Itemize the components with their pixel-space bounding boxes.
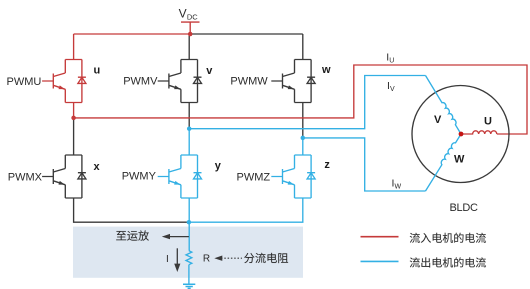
node VDC junction bbox=[188, 32, 193, 37]
wire: PWMW emitter to node z bbox=[302, 103, 304, 138]
svg-text:y: y bbox=[215, 160, 222, 172]
svg-text:I: I bbox=[166, 254, 169, 265]
svg-text:PWMZ: PWMZ bbox=[237, 171, 271, 183]
wire: rail to PWMU collector bbox=[73, 34, 75, 60]
svg-text:PWMV: PWMV bbox=[123, 76, 158, 88]
arrow to op-amp bbox=[162, 234, 189, 239]
svg-text:PWMU: PWMU bbox=[7, 76, 42, 88]
transistor PWMU bbox=[42, 60, 86, 103]
node v junction bbox=[187, 126, 192, 131]
wire: PWMX emitter to shunt node bbox=[74, 198, 189, 222]
svg-text:R: R bbox=[203, 253, 210, 264]
transistor PWMY bbox=[158, 155, 202, 198]
wire: resistor to ground bbox=[188, 265, 190, 284]
node u junction bbox=[71, 116, 76, 121]
wire: I_U red path node u to motor bbox=[74, 65, 527, 134]
svg-text:DC: DC bbox=[187, 13, 198, 22]
winding V bbox=[426, 76, 462, 135]
svg-text:V: V bbox=[179, 6, 187, 20]
wire: rail to PWMW collector bbox=[302, 34, 304, 60]
wire: PWMY emitter to shunt resistor bbox=[188, 198, 190, 251]
transistor PWMZ bbox=[271, 155, 315, 198]
svg-text:W: W bbox=[395, 183, 402, 190]
svg-text:PWMX: PWMX bbox=[8, 172, 43, 184]
svg-text:W: W bbox=[454, 154, 465, 166]
label legend current out of motor bbox=[410, 257, 486, 267]
motor BLDC stator circle bbox=[412, 86, 509, 183]
svg-text:U: U bbox=[484, 116, 492, 128]
svg-text:PWMY: PWMY bbox=[122, 171, 157, 183]
wire: top DC rail black segment bbox=[190, 33, 303, 35]
node z junction bbox=[301, 136, 306, 141]
wire: PWMU emitter to node u bbox=[73, 103, 75, 118]
svg-text:x: x bbox=[94, 161, 101, 173]
shunt measurement shaded region bbox=[73, 227, 303, 278]
svg-text:u: u bbox=[94, 64, 101, 76]
svg-text:V: V bbox=[390, 86, 395, 93]
node shunt junction bbox=[187, 220, 192, 225]
label fenliu dianzu (shunt resistor) bbox=[244, 253, 288, 263]
transistor PWMW bbox=[271, 60, 315, 103]
legend cyan line bbox=[361, 260, 399, 262]
label legend current into motor bbox=[410, 233, 486, 243]
svg-text:V: V bbox=[434, 114, 442, 126]
motor star point bbox=[459, 132, 464, 137]
legend red line bbox=[361, 236, 399, 238]
transistor PWMV bbox=[158, 60, 202, 103]
wire: node u to PWMX collector bbox=[73, 118, 75, 155]
wire: top DC rail red segment bbox=[74, 33, 191, 35]
wire: node v to PWMY collector bbox=[188, 129, 190, 155]
svg-text:PWMW: PWMW bbox=[230, 76, 268, 88]
svg-text:w: w bbox=[321, 64, 331, 76]
wire: PWMZ emitter to shunt node bbox=[189, 198, 303, 222]
wire: PWMV emitter to node v bbox=[188, 103, 190, 129]
winding U bbox=[461, 131, 497, 134]
winding W bbox=[426, 134, 462, 191]
arrow shunt resistor callout bbox=[214, 256, 242, 261]
transistor PWMX bbox=[42, 155, 86, 198]
resistor R shunt bbox=[186, 251, 192, 265]
wire: VDC supply lead bbox=[181, 22, 200, 34]
svg-text:v: v bbox=[206, 65, 213, 77]
wire: I_W cyan path node z to motor bbox=[303, 138, 426, 191]
label zhi yunfang (to op-amp) bbox=[116, 230, 149, 240]
wire: node z to PWMZ collector bbox=[302, 138, 304, 155]
wire: I_V cyan path node v to motor bbox=[189, 76, 425, 129]
svg-text:U: U bbox=[389, 57, 394, 64]
wire: rail to PWMV collector bbox=[188, 34, 190, 60]
svg-text:z: z bbox=[324, 159, 330, 171]
svg-text:BLDC: BLDC bbox=[450, 202, 478, 214]
arrow current I bbox=[174, 248, 180, 272]
ground bbox=[183, 284, 195, 288]
